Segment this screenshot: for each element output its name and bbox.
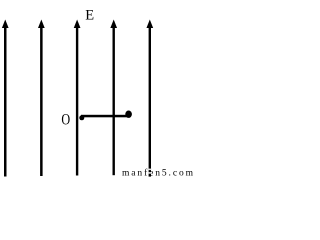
node small dot at O	[79, 115, 84, 120]
watermark stroke crossing field line 5 (light interruptions)	[148, 169, 151, 171]
field line arrow 1 (leftmost)	[2, 20, 9, 177]
svg-text:E: E	[85, 8, 94, 24]
wire horizontal segment from O to charge	[81, 115, 127, 118]
field line arrow 5 (rightmost)	[146, 20, 153, 177]
field line arrow 2	[38, 20, 45, 177]
charge big dot	[125, 111, 132, 118]
field line arrow 4	[110, 20, 117, 176]
svg-text:O: O	[61, 111, 70, 129]
svg-text:manfen5.com: manfen5.com	[122, 168, 194, 178]
field line arrow 3 (under E label)	[74, 20, 81, 176]
